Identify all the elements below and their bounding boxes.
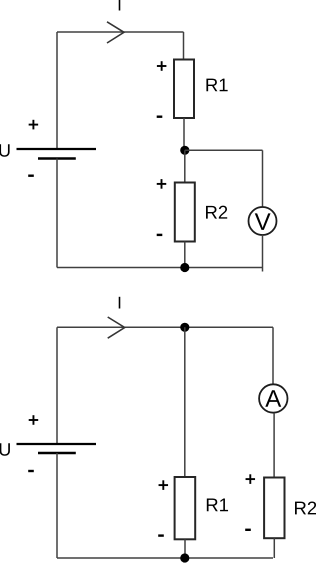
- label R1 (circuit 2): [207, 498, 228, 511]
- label A (ammeter): [265, 390, 281, 407]
- label - (R2 circuit 1): [157, 234, 163, 236]
- wire node to R2 (circuit 1): [184, 150, 186, 182]
- battery U (circuit 1) plate long: [17, 148, 97, 150]
- wire left upper (circuit 1): [56, 32, 58, 149]
- voltmeter V (circuit 1): [249, 207, 277, 235]
- label + (battery 2): [29, 415, 39, 425]
- wire R1 top lead (circuit 1): [183, 32, 185, 60]
- label + (R1 circuit 1): [157, 61, 167, 71]
- wire left upper (circuit 2): [56, 327, 58, 444]
- ammeter A (circuit 2): [259, 384, 287, 412]
- label U (battery 2): [0, 443, 10, 456]
- node junction dot bottom (circuit 2): [180, 553, 189, 562]
- label I (circuit 1): [119, 0, 121, 11]
- resistor R1 (circuit 2): [175, 477, 196, 539]
- label - (R1 circuit 1): [157, 115, 163, 117]
- battery U (circuit 1) plate short: [38, 157, 76, 160]
- label R2 (circuit 1): [206, 206, 227, 219]
- label R1 (circuit 1): [206, 79, 227, 92]
- resistor R1 (circuit 1): [174, 60, 194, 119]
- wire voltmeter bottom lead (circuit 1): [262, 235, 264, 272]
- label + (R1 circuit 2): [159, 480, 169, 490]
- wire node to voltmeter branch horizontal (circuit 1): [185, 149, 263, 151]
- resistor R2 (circuit 2): [264, 478, 284, 539]
- wire left lower (circuit 2): [56, 453, 58, 558]
- battery U (circuit 2) plate short: [38, 452, 76, 455]
- wire bottom (circuit 1): [57, 267, 263, 269]
- label R2 (circuit 2): [295, 501, 316, 514]
- label I (circuit 2): [119, 297, 121, 309]
- wire R1 to node (circuit 1): [183, 118, 185, 150]
- label - (battery 1): [28, 174, 34, 176]
- node junction dot bottom (circuit 1): [180, 263, 189, 272]
- current arrow I (circuit 2): [108, 317, 125, 338]
- label U (battery 1): [0, 144, 10, 157]
- label V (voltmeter): [255, 213, 271, 230]
- wire ammeter to R2 (circuit 2): [273, 413, 275, 478]
- wire left lower (circuit 1): [56, 159, 58, 268]
- wire voltmeter top lead (circuit 1): [262, 150, 264, 207]
- wire top (circuit 2): [57, 326, 273, 328]
- wire right upper to ammeter (circuit 2): [272, 327, 274, 384]
- current arrow I (circuit 1): [107, 22, 124, 43]
- resistor R2 (circuit 1): [175, 183, 195, 242]
- wire R1 to bottom (circuit 2): [184, 539, 186, 558]
- label - (R2 circuit 2): [245, 529, 251, 531]
- node junction dot top (circuit 2): [180, 323, 189, 332]
- wire R2 to bottom (circuit 1): [184, 242, 186, 268]
- wire node to R1 (circuit 2): [184, 327, 186, 477]
- node junction dot mid (circuit 1): [180, 146, 189, 155]
- wire R2 to bottom (circuit 2): [273, 538, 275, 558]
- label + (battery 1): [29, 120, 39, 130]
- label - (R1 circuit 2): [158, 534, 164, 536]
- battery U (circuit 2) plate long: [17, 443, 97, 445]
- wire bottom (circuit 2): [57, 557, 273, 559]
- label + (R2 circuit 2): [246, 474, 256, 484]
- label + (R2 circuit 1): [157, 179, 167, 189]
- label - (battery 2): [28, 470, 34, 472]
- wire top (circuit 1): [57, 31, 184, 33]
